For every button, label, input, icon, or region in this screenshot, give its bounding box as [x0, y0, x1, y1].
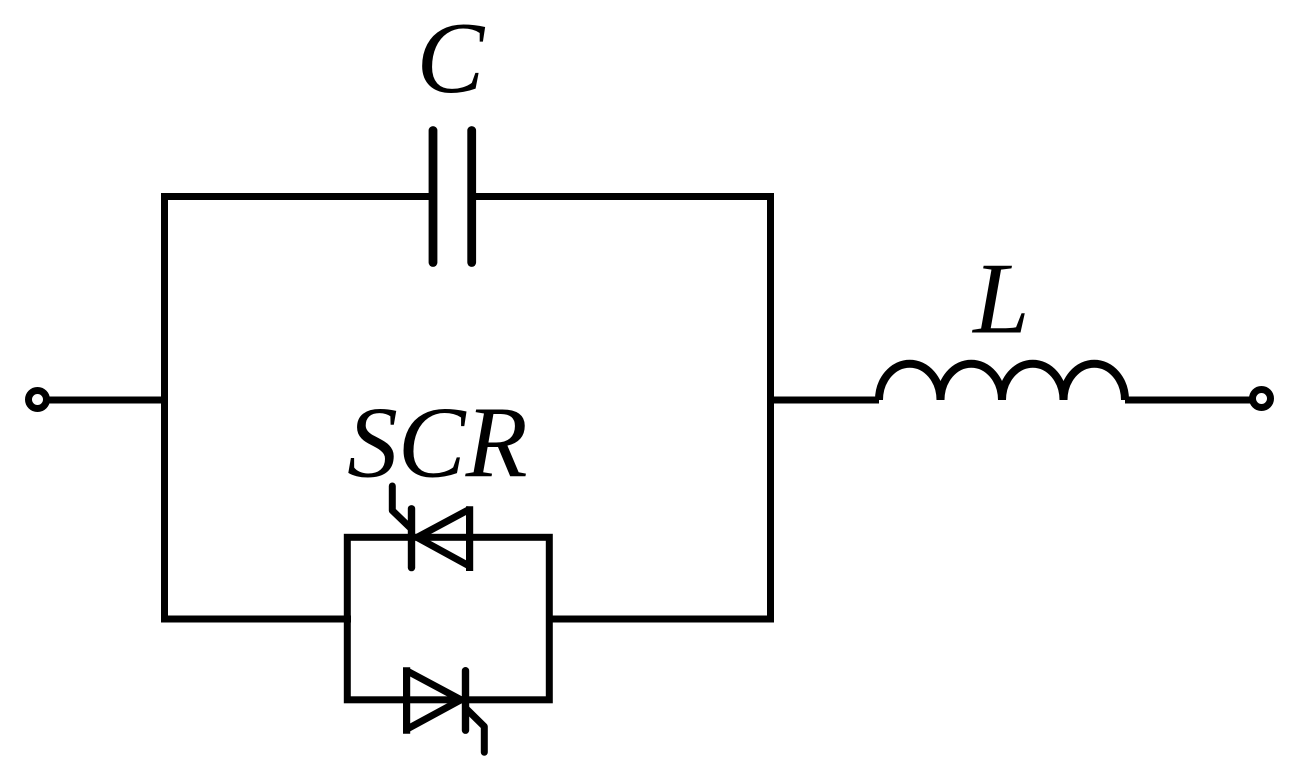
wire top right segment — [472, 193, 774, 200]
wire inductor to right terminal — [1125, 397, 1250, 404]
capacitor C — [433, 131, 472, 263]
terminal right — [1253, 390, 1271, 408]
thyristor lower (SCR) — [407, 667, 466, 734]
wire right vertical — [767, 193, 774, 623]
terminal left — [29, 391, 47, 409]
svg-text:L: L — [971, 243, 1029, 355]
SCR box — [347, 537, 549, 700]
gate lead upper — [392, 486, 411, 529]
thyristor upper (SCR) — [412, 506, 470, 571]
label SCR — [347, 387, 527, 499]
gate lead lower — [466, 709, 484, 753]
inductor L — [879, 364, 1125, 400]
svg-text:C: C — [417, 2, 486, 114]
wire right lead to inductor — [767, 397, 879, 404]
svg-text:SCR: SCR — [347, 387, 527, 499]
wire middle right segment — [546, 616, 774, 623]
wire left lead — [49, 397, 161, 404]
wire middle left segment — [161, 616, 351, 623]
label L — [971, 243, 1029, 355]
wire top left segment — [161, 193, 433, 200]
wire left vertical — [161, 193, 168, 623]
label C — [417, 2, 486, 114]
